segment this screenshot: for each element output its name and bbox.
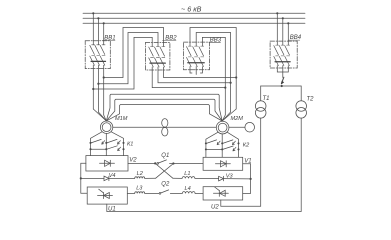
wire: VV3 top link over to M2M feeder, phase 2 bbox=[196, 33, 230, 113]
node: Q1 left dot bbox=[154, 162, 156, 164]
node: tap dot bbox=[103, 22, 105, 24]
wire: VV4 bus tap 3 bbox=[287, 23, 289, 41]
wire: VV3 top link over to M2M feeder, phase 3 bbox=[202, 37, 225, 115]
wire: M1M rotor leads bbox=[91, 132, 124, 156]
svg-text:К2: К2 bbox=[243, 143, 250, 149]
wire: U1 bottom to T2 secondary bbox=[107, 118, 301, 211]
breaker VV4 bbox=[270, 41, 297, 68]
wire: Q2 to L4 bbox=[170, 192, 182, 194]
wire: M1M stator fan-in bbox=[93, 109, 106, 121]
wire: motor tie line 2 bbox=[106, 99, 222, 121]
wire: link VV1 output to VV2 top, phase 1 bbox=[93, 37, 152, 89]
wire: L1 to V3 bbox=[195, 177, 219, 179]
wire: VV1 output conductors down to motor fan bbox=[92, 69, 94, 109]
wire: VV1 bus tap 2 bbox=[97, 18, 99, 41]
svg-text:L4: L4 bbox=[185, 186, 191, 192]
svg-text:U2: U2 bbox=[211, 204, 219, 210]
diode V1 bbox=[215, 161, 230, 167]
node: VV2/VV3 output junction dots bbox=[235, 76, 237, 78]
svg-text:L2: L2 bbox=[137, 171, 144, 177]
contactor K1 bbox=[89, 139, 124, 150]
wire: shaft M2M to tacho bbox=[229, 126, 245, 128]
wire: V2 right to Q1 bbox=[128, 162, 155, 164]
wire: VV4 output merge bbox=[277, 68, 288, 78]
transformer T2 bbox=[296, 101, 307, 112]
wire: cross link right-down bbox=[156, 164, 174, 179]
diode V4 bbox=[104, 176, 135, 181]
rectifier V1 box bbox=[203, 157, 243, 170]
node: V3 row dot bbox=[250, 178, 252, 180]
wire: V4/L2 row bbox=[81, 177, 104, 179]
wire: VV3 bottom stubs bbox=[190, 70, 192, 73]
inductor L4 bbox=[182, 192, 195, 194]
wire: cross link left-down bbox=[155, 163, 173, 178]
wire: V1 right to U2 right bbox=[243, 164, 251, 194]
wire: M2M rotor leads bbox=[206, 132, 239, 157]
wire: bus phase B bbox=[83, 17, 305, 19]
breaker VV4 poles bbox=[274, 41, 290, 68]
wire: VV3 top link over to M2M feeder, phase 1 bbox=[190, 28, 236, 110]
cable arrow symbol bbox=[281, 77, 284, 84]
exciter U1 box bbox=[87, 187, 127, 204]
node: tap dot bbox=[97, 17, 99, 19]
fan symbol on shaft bbox=[162, 119, 168, 136]
exciter U2 box bbox=[203, 187, 243, 200]
breaker VV2 poles bbox=[149, 43, 166, 71]
wire: T2 primary stub bbox=[300, 86, 302, 101]
inductor L1 bbox=[182, 177, 195, 179]
svg-text:М2М: М2М bbox=[231, 116, 244, 122]
wire: bus phase A bbox=[83, 12, 305, 14]
thyristor U2 bbox=[213, 187, 228, 196]
wire: motor tie line 3 bbox=[106, 105, 222, 122]
switch Q2 bbox=[159, 190, 169, 194]
svg-text:М1М: М1М bbox=[115, 116, 128, 122]
wire: U2 bottom to T1 secondary bbox=[221, 118, 261, 206]
svg-text:Т1: Т1 bbox=[263, 96, 270, 102]
thyristor U1 bbox=[98, 189, 113, 198]
inductor L3 bbox=[135, 192, 145, 194]
wire: bus phase C bbox=[83, 22, 305, 24]
wire: L3 to Q2 bbox=[145, 192, 159, 194]
svg-text:L3: L3 bbox=[136, 186, 143, 192]
diode V2 bbox=[100, 160, 115, 166]
node: supply bar dot bbox=[281, 85, 283, 87]
wire: VV1 bus tap 3 bbox=[103, 23, 105, 41]
wire: L4 to U2 left bbox=[195, 192, 203, 194]
svg-text:Q1: Q1 bbox=[161, 153, 169, 159]
wire: link VV1 output to VV2 top, phase 3 bbox=[104, 28, 164, 78]
rectifier V2 box bbox=[86, 156, 128, 171]
transformer T1 bbox=[255, 101, 266, 112]
breaker VV3 poles bbox=[187, 42, 205, 70]
svg-text:Т2: Т2 bbox=[307, 96, 315, 102]
wire: motor tie line 1 bbox=[106, 94, 222, 121]
breaker VV1 poles bbox=[90, 41, 106, 69]
node: Q1 right dot bbox=[172, 162, 174, 164]
node: dot V4 row left bbox=[80, 177, 82, 179]
switch Q1 bbox=[157, 160, 167, 164]
svg-text:~ 6 кВ: ~ 6 кВ bbox=[181, 4, 202, 13]
wire: U1 right to L3 bbox=[127, 192, 134, 194]
node: VV1 output junction dots bbox=[103, 76, 105, 78]
breaker VV1 bbox=[85, 41, 110, 69]
svg-text:К1: К1 bbox=[127, 142, 133, 148]
wire: link VV1 output to VV2 top, phase 2 bbox=[98, 33, 158, 84]
diode V3 bbox=[219, 176, 251, 181]
wire: M2M stator fan-in bbox=[222, 109, 236, 121]
svg-text:V4: V4 bbox=[109, 173, 116, 179]
wire: cross to L1 bbox=[173, 177, 182, 179]
node: tap dot bbox=[276, 12, 278, 14]
svg-text:V3: V3 bbox=[226, 173, 234, 179]
wire: VV1 bus tap 1 bbox=[92, 13, 94, 41]
wire: transformer supply bar bbox=[261, 85, 302, 87]
svg-text:Q2: Q2 bbox=[161, 181, 170, 187]
wire: L2 to cross bbox=[145, 177, 156, 179]
breaker VV2 bbox=[145, 43, 170, 71]
wire: VV2 bottom to M2M feeder, phase 1 bbox=[152, 70, 225, 88]
svg-text:L1: L1 bbox=[184, 171, 190, 177]
wire: Q1 to V1 left bbox=[170, 163, 204, 165]
motor M2M bbox=[216, 121, 229, 134]
inductor L2 bbox=[135, 177, 145, 179]
wire: VV4 bus tap 2 bbox=[282, 18, 284, 41]
wire: V2 left to U1 left bbox=[81, 163, 87, 193]
node: tap dot bbox=[282, 17, 284, 19]
motor M1M bbox=[100, 121, 112, 133]
wire: VV4 bus tap 1 bbox=[276, 13, 278, 41]
svg-text:V2: V2 bbox=[129, 158, 137, 164]
wire: VV2 bottom to M2M feeder, phase 2 bbox=[158, 70, 231, 83]
tacho generator circle bbox=[245, 122, 255, 132]
contactor K2 bbox=[205, 140, 240, 151]
node: tap dot bbox=[287, 22, 289, 24]
wire: shaft M1M to fan bbox=[113, 126, 162, 128]
wire: shaft fan to M2M bbox=[168, 126, 216, 128]
breaker VV3 bbox=[184, 42, 210, 70]
node: tap dot bbox=[92, 12, 94, 14]
wire: VV2 bottom to M2M feeder, phase 3 bbox=[164, 70, 237, 78]
wire: T1 primary stub bbox=[260, 86, 262, 101]
